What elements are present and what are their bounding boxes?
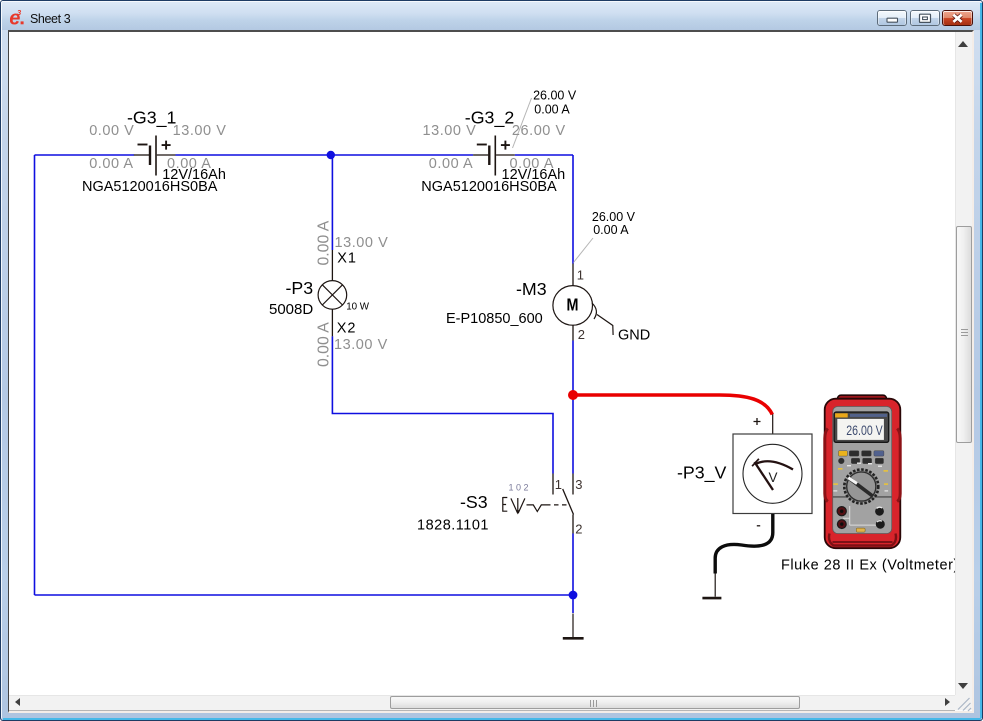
svg-text:13.00 V: 13.00 V — [423, 123, 477, 139]
svg-text:X1: X1 — [337, 251, 357, 267]
svg-text:-P3_V: -P3_V — [677, 463, 727, 484]
svg-text:0.00 A: 0.00 A — [167, 156, 211, 172]
svg-text:-P3: -P3 — [286, 278, 314, 298]
svg-text:0.00 A: 0.00 A — [534, 103, 570, 117]
svg-text:-S3: -S3 — [460, 492, 488, 512]
svg-text:NGA5120016HS0BA: NGA5120016HS0BA — [421, 179, 557, 195]
svg-text:0.00 A: 0.00 A — [593, 223, 629, 237]
svg-text:2: 2 — [578, 327, 585, 342]
svg-text:13.00 V: 13.00 V — [334, 337, 388, 353]
svg-text:13.00 V: 13.00 V — [335, 235, 389, 251]
svg-text:0.00 A: 0.00 A — [89, 156, 133, 172]
svg-text:0.00 A: 0.00 A — [429, 156, 473, 172]
svg-text:26.00 V: 26.00 V — [592, 210, 636, 224]
svg-text:NGA5120016HS0BA: NGA5120016HS0BA — [82, 179, 218, 195]
svg-text:26.00 V: 26.00 V — [533, 89, 577, 103]
svg-text:3: 3 — [17, 9, 22, 17]
svg-text:0.00 V: 0.00 V — [89, 123, 134, 139]
svg-text:5008D: 5008D — [269, 301, 313, 318]
svg-text:13.00 V: 13.00 V — [173, 123, 227, 139]
svg-text:E-P10850_600: E-P10850_600 — [446, 311, 543, 327]
svg-text:M: M — [567, 296, 579, 315]
svg-text:26.00 V: 26.00 V — [846, 423, 882, 439]
svg-text:-M3: -M3 — [516, 279, 547, 299]
svg-text:Fluke 28 II Ex (Voltmeter): Fluke 28 II Ex (Voltmeter) — [781, 557, 955, 573]
svg-text:0.00 A: 0.00 A — [510, 156, 554, 172]
svg-text:3: 3 — [575, 477, 582, 492]
svg-text:0.00 A: 0.00 A — [316, 322, 333, 367]
svg-text:26.00 V: 26.00 V — [512, 123, 566, 139]
svg-text:X2: X2 — [337, 321, 357, 337]
svg-text:2: 2 — [575, 521, 582, 536]
svg-text:GND: GND — [618, 328, 650, 344]
svg-text:10 W: 10 W — [346, 302, 370, 313]
svg-text:1: 1 — [555, 477, 562, 492]
svg-text:1828.1101: 1828.1101 — [417, 518, 489, 534]
svg-text:1: 1 — [577, 267, 584, 282]
svg-text:V: V — [768, 470, 777, 485]
svg-text:1 0 2: 1 0 2 — [509, 483, 529, 493]
svg-text:0.00 A: 0.00 A — [316, 220, 333, 265]
